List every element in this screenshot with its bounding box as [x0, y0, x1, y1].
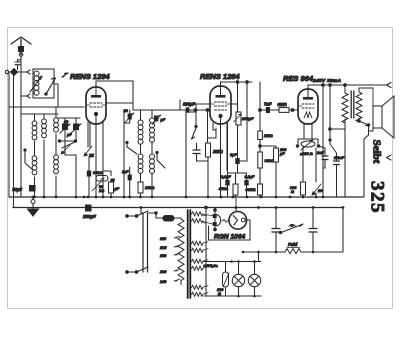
- wire top of RF block: [22, 113, 58, 115]
- svg-text:RGN 1064: RGN 1064: [214, 233, 245, 240]
- RGN inner strokes: [233, 216, 237, 225]
- junction dots on buses: [32, 196, 345, 209]
- svg-text:25: 25: [88, 153, 94, 158]
- resistor 2M box: [206, 143, 211, 157]
- svg-text:RES 964: RES 964: [283, 74, 314, 83]
- svg-text:Feld: Feld: [288, 242, 298, 247]
- fuse: [163, 216, 174, 222]
- rectifier anode bar: [214, 208, 216, 230]
- wire switch to fuse: [148, 213, 164, 218]
- wire V1 left electrode down to trimmer cluster: [88, 122, 90, 147]
- resistor 0,5M box: [279, 108, 289, 113]
- IF transformer 2 top wire: [133, 109, 206, 111]
- wire grid V3: [260, 109, 298, 111]
- wire stub to coupler lower: [21, 95, 27, 97]
- RF coil block: column 1 upper: [32, 121, 37, 140]
- tap 220: [174, 269, 180, 271]
- speaker switch: [359, 121, 369, 126]
- svg-text:100µF: 100µF: [279, 148, 287, 156]
- V1 grid side stubs: [86, 104, 106, 106]
- wire 2M top: [207, 110, 209, 143]
- wire switch top to bus2: [141, 208, 143, 214]
- tap arrows pair 2: [203, 242, 208, 250]
- field coil wires: [243, 208, 343, 253]
- wire grid detector right: [186, 104, 196, 128]
- switch S4: [127, 142, 137, 154]
- lamp rail top: [204, 261, 261, 263]
- dial lamp 1: [232, 274, 244, 286]
- trimmer cap with label 10 at x129: [128, 114, 132, 120]
- V1 cathode dot: [94, 112, 97, 115]
- wire antenna tap row: [9, 72, 20, 208]
- svg-text:240: 240: [159, 280, 167, 284]
- output transformer primary: [342, 85, 348, 129]
- wire heater column: [88, 158, 90, 197]
- svg-text:125: 125: [160, 246, 167, 250]
- antenna plug circle: [19, 53, 23, 57]
- trimmer cap IF2 top right: [154, 116, 158, 122]
- suppressor cap right: [309, 229, 317, 233]
- node diamond connector: [11, 69, 18, 76]
- wire primary bottom to anode column: [330, 128, 345, 130]
- mains terminal upper: [126, 215, 136, 217]
- lamp rail dots: [230, 251, 260, 298]
- IF2 coil a lower: [138, 154, 143, 173]
- wire speaker bottom: [369, 128, 374, 131]
- wire 100pF stub: [180, 100, 186, 197]
- field coil resistor zigzag: [285, 249, 301, 254]
- switch blade lower: [137, 267, 149, 272]
- HT rail end connector: [387, 83, 392, 88]
- V3 grid stub: [298, 105, 302, 107]
- wire V3 filament down legs: [304, 124, 312, 139]
- wire 2M: [208, 138, 217, 197]
- hum pot assembly: [298, 139, 318, 144]
- switch blade upper: [137, 211, 149, 216]
- pot arrow: [92, 179, 104, 192]
- lamp rail bottom: [204, 295, 261, 297]
- svg-text:µF: µF: [114, 187, 120, 191]
- wire secondary to speaker top: [359, 88, 373, 106]
- wires coil a: [140, 144, 142, 197]
- svg-text:100Ω: 100Ω: [217, 288, 224, 296]
- capacitor 2nF out: [322, 156, 328, 160]
- potentiometer rounded box: [96, 176, 108, 182]
- wire 47k branch: [240, 82, 247, 161]
- ballast diagonal: [223, 273, 229, 287]
- tube V2 RENS 1284 envelope: [210, 86, 231, 124]
- RF coil column 3 upper: [54, 118, 59, 132]
- connector arrow lower: [27, 94, 31, 98]
- tap arrows pair 3: [203, 260, 208, 268]
- wires 0.1uF: [228, 123, 247, 197]
- mains switch pole B: [147, 213, 149, 272]
- filament squiggle to bulb: [222, 220, 229, 223]
- resistor 30k upper box: [258, 152, 263, 168]
- V2 grids dashed: [215, 102, 227, 110]
- tap 150: [174, 253, 180, 255]
- trimmer arrow a: [60, 124, 70, 133]
- resistor 30k box low: [258, 184, 263, 195]
- svg-text:250µF: 250µF: [82, 214, 96, 219]
- wire vert 330 anode branch: [329, 85, 331, 139]
- resistor 1M box: [258, 131, 263, 140]
- svg-text:100µF: 100µF: [242, 116, 254, 121]
- wire V2 screen left: [213, 123, 216, 138]
- wire col1: [34, 114, 36, 147]
- wires coil b: [151, 110, 153, 197]
- RGN top wire to bus: [235, 197, 237, 212]
- feld line dots: [275, 251, 315, 254]
- transformer primary zigzag: [178, 219, 184, 285]
- wire grid line to tube V1: [9, 106, 84, 108]
- secondary winding pair 2: [192, 241, 204, 245]
- V2 grid side stubs: [210, 103, 231, 105]
- antenna coupler box: [33, 69, 54, 98]
- caps 0.1uF blocks: [225, 180, 229, 186]
- resistor 300ohm box: [301, 182, 306, 195]
- cap 25mF el: [334, 161, 340, 165]
- connector arrow upper: [27, 70, 31, 74]
- svg-text:RENS 1284: RENS 1284: [200, 72, 240, 81]
- wire to coil2a: [140, 110, 142, 120]
- ground symbol: [31, 200, 35, 204]
- wire V1 anode cap to top: [95, 87, 97, 96]
- svg-text:µF: µF: [160, 118, 166, 122]
- suppressor switch: [280, 224, 303, 233]
- svg-text:25kΩ: 25kΩ: [144, 186, 154, 190]
- wire top of trimmer cluster: [58, 118, 80, 124]
- wire stub to coupler upper: [21, 71, 27, 73]
- svg-text:30kΩ: 30kΩ: [265, 159, 274, 163]
- svg-text:50µF: 50µF: [12, 187, 22, 192]
- suppressor motor squiggle: [289, 225, 296, 227]
- svg-text:245V 38mA: 245V 38mA: [312, 78, 342, 84]
- wire fuse to primary: [174, 218, 181, 219]
- V1 anode plate: [91, 95, 101, 98]
- IF2 coil a upper: [138, 120, 143, 144]
- wire 1uF down: [236, 164, 238, 173]
- rectifier RGN1064 envelope: [229, 212, 247, 230]
- wire hum pot down: [303, 147, 316, 182]
- wire V2 cathode down: [220, 118, 222, 197]
- switch S1 in coupler: [46, 78, 56, 94]
- center return wire: [205, 208, 207, 297]
- svg-text:RENS 1294: RENS 1294: [70, 72, 110, 81]
- wire x124 down to bus: [124, 110, 130, 197]
- output transformer secondary: [356, 88, 362, 122]
- wire plate branch V2: [259, 82, 261, 131]
- V2 anode plate: [216, 95, 226, 98]
- wire col1 to bus: [34, 147, 36, 197]
- secondary winding pair 3: [192, 259, 204, 263]
- wire V2 grid exits: [196, 103, 238, 105]
- svg-text:1µF: 1µF: [122, 170, 129, 174]
- HV secondary winding row 1: [192, 212, 204, 216]
- IF2 coil b upper: [150, 118, 155, 142]
- switch S2 RF: [25, 150, 33, 170]
- RGN anode small circle: [241, 218, 245, 222]
- V2 cathode dot: [219, 114, 222, 117]
- V3 grid dashed: [302, 104, 314, 108]
- wire col3: [55, 107, 57, 197]
- speaker: [373, 106, 382, 128]
- detector: cap 100pF block: [186, 107, 190, 112]
- svg-text:150: 150: [160, 254, 167, 258]
- wire bus2 to feld vertical: [258, 208, 260, 253]
- tap 240: [174, 279, 180, 281]
- wire switch return down: [364, 125, 369, 197]
- wire 100uF branch: [237, 82, 239, 112]
- mains switch pole A: [142, 213, 144, 272]
- left rail 1: [8, 74, 10, 198]
- svg-text:7nF: 7nF: [264, 102, 272, 107]
- coil L1 in coupler: [34, 71, 39, 95]
- wire V2 heater down: [226, 123, 228, 170]
- wire 100uF2: [275, 162, 277, 197]
- wire col2: [43, 114, 45, 197]
- dial lamp 2: [248, 274, 260, 286]
- svg-text:30KΩ: 30KΩ: [246, 188, 256, 192]
- output transformer core: [351, 91, 354, 118]
- resistor 47k box low: [233, 184, 238, 195]
- capacitor 100uF box: [236, 112, 241, 125]
- capacitor 100uF 2 box tall: [274, 148, 279, 162]
- lamp 2 wires: [254, 262, 256, 297]
- V1 grids dashed: [90, 103, 102, 107]
- wire trimmers to switch: [65, 130, 76, 142]
- wire 30k upper: [259, 140, 261, 185]
- svg-text:1MΩ: 1MΩ: [264, 133, 274, 138]
- anode block upper: [213, 214, 217, 218]
- chassis bus 1: [9, 196, 363, 198]
- svg-text:Seibt: Seibt: [371, 140, 383, 164]
- RF coil column 3 lower: [54, 155, 59, 174]
- svg-text:0,1µF: 0,1µF: [221, 175, 231, 179]
- scan border frame: [8, 28, 393, 309]
- wire V1 heater down: [102, 122, 104, 197]
- wire V1 cathode down: [95, 116, 97, 197]
- wire rail to feld line: [258, 252, 260, 262]
- switch S5: [157, 152, 165, 168]
- capacitor 250uF block on bus: [86, 205, 92, 211]
- lamp 1 wires: [238, 262, 240, 297]
- V3 anode plate: [303, 97, 313, 100]
- wire 47k low: [235, 173, 237, 197]
- capacitor box uF: [109, 182, 114, 193]
- wire 316 to bus: [315, 193, 317, 197]
- cap det: [193, 150, 200, 154]
- tap arrows pair 4: [203, 286, 208, 294]
- V3 filament M: [304, 112, 312, 118]
- trimmer capacitor block b: [74, 124, 79, 130]
- tube V1 RENS 1294 envelope: [86, 87, 106, 124]
- hum pot oval: [301, 141, 315, 147]
- wire V1 grid2 to anode corner: [106, 102, 133, 104]
- wire 100uF down: [237, 125, 239, 158]
- wire V3 top cap to HT rail: [308, 85, 388, 98]
- svg-text:100pF: 100pF: [183, 102, 196, 107]
- switch S3: [59, 141, 76, 148]
- transformer core: [187, 210, 189, 298]
- trimmer mark before label: [62, 73, 68, 77]
- chassis bus 2: [13, 207, 343, 209]
- hum pot arrow: [301, 140, 313, 150]
- capacitor block on heater column: [87, 171, 91, 177]
- wire S3 to bus: [65, 141, 76, 197]
- wire 2nF: [319, 146, 326, 168]
- wire to 100uF2 top: [260, 146, 276, 148]
- svg-text:25mF: 25mF: [333, 156, 345, 160]
- antenna: [11, 37, 31, 55]
- suppressor cap left: [272, 229, 280, 233]
- wire pot to bus: [103, 171, 111, 197]
- trimmer capacitor block a: [63, 124, 68, 130]
- hum pot end dots: [296, 145, 298, 147]
- trimmer arrow through L1: [30, 76, 42, 92]
- tap 125: [174, 245, 180, 247]
- padder trimmer 25: [84, 146, 92, 156]
- wire coupler to V1 cathode area: [54, 84, 58, 107]
- svg-text:47kΩ: 47kΩ: [218, 187, 228, 191]
- antenna series capacitor: [19, 47, 24, 52]
- tap 110: [174, 236, 180, 238]
- terminal circle left: [5, 70, 8, 73]
- wire 30k low: [259, 168, 261, 197]
- wire V2 top cap: [221, 82, 253, 96]
- svg-text:10: 10: [318, 189, 323, 193]
- svg-text:⌀100 Ω: ⌀100 Ω: [300, 152, 313, 156]
- svg-text:2MΩ: 2MΩ: [212, 149, 223, 154]
- svg-text:110: 110: [160, 237, 167, 241]
- wire vert 323: [322, 85, 324, 197]
- svg-text:300Ω: 300Ω: [290, 186, 297, 194]
- wire 300ohm: [302, 195, 304, 197]
- cap 1uF small: [128, 175, 132, 181]
- secondary winding pair 4: [192, 285, 204, 289]
- HV tap stubs to anode bar: [203, 215, 213, 225]
- wire box around label: [209, 220, 251, 240]
- svg-text:10: 10: [64, 120, 69, 124]
- RF coil column 2: [42, 119, 47, 138]
- filament D arc: [217, 215, 221, 227]
- wire primary bottom down: [344, 129, 346, 197]
- IF2 coil b lower: [150, 154, 155, 173]
- HV secondary winding row 2: [192, 219, 204, 223]
- svg-text:1µF: 1µF: [230, 152, 238, 157]
- svg-text:220: 220: [159, 270, 167, 274]
- capacitor 7nF block: [266, 107, 270, 113]
- svg-text:325: 325: [367, 181, 388, 214]
- switch tone: [330, 139, 337, 161]
- capacitor 50uF block: [30, 186, 36, 192]
- svg-text:30kΩ: 30kΩ: [93, 171, 102, 175]
- tube V3 RES 964 envelope: [298, 89, 318, 124]
- wires suppressor: [276, 208, 313, 253]
- trimmer arrow b: [71, 124, 81, 133]
- resistor 25k box: [138, 182, 143, 193]
- trimmer arrow on S3: [61, 145, 70, 154]
- wire antenna down: [20, 56, 22, 197]
- trimmer right of 300: [312, 184, 321, 195]
- ballast loop: [223, 262, 229, 297]
- switch S6: [192, 126, 197, 139]
- anode block lower: [213, 222, 217, 226]
- cap 1uF V2 block: [235, 158, 239, 164]
- series capacitor small: [15, 60, 21, 70]
- connector lower right: [387, 155, 392, 160]
- mains terminal lower: [126, 271, 136, 273]
- svg-text:6MΩ: 6MΩ: [278, 102, 288, 107]
- svg-text:µF: µF: [66, 133, 72, 137]
- RF coil col 1 lower: [32, 156, 37, 175]
